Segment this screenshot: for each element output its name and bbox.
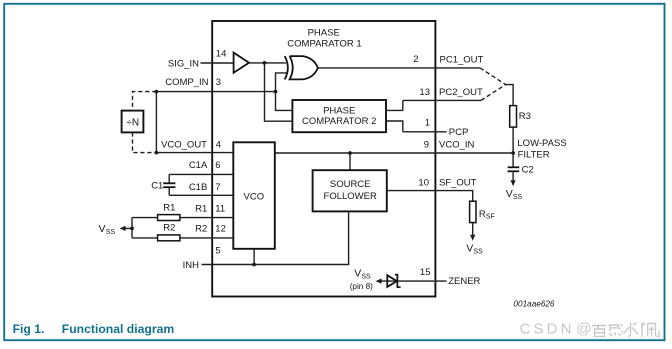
pin 14 SIG_IN label [168, 49, 227, 70]
wire COMP_IN [156, 91, 275, 93]
phase comparator 2 box U2 [292, 100, 386, 132]
IC main outline U1 [212, 21, 435, 297]
junction VCO_OUT feedback [155, 151, 159, 155]
svg-text:VCO_IN: VCO_IN [439, 140, 475, 151]
dashed wire feedback divider [133, 92, 157, 153]
svg-text:COMPARATOR 2: COMPARATOR 2 [302, 116, 376, 127]
resistor RSF [470, 201, 495, 222]
pin 13 PC2_OUT label [419, 87, 483, 98]
capacitor C2 [508, 153, 534, 175]
svg-text:CSDN: CSDN [520, 320, 575, 337]
wire XOR output to pin 2 PC1_OUT [318, 67, 480, 69]
svg-text:SS: SS [361, 273, 371, 280]
pin 11 R1 label [195, 203, 225, 214]
svg-text:(pin 8): (pin 8) [350, 282, 373, 291]
pin 1 PCP label [425, 118, 469, 138]
svg-text:12: 12 [215, 224, 226, 235]
wire R3 to VCO_IN node [512, 127, 514, 153]
ground VSS below RSF [466, 223, 483, 256]
wire R2 [132, 237, 233, 239]
VCO box U3 [233, 142, 274, 249]
wire comparator 2 lower output to pin 1 PCP [386, 121, 447, 132]
svg-text:SF: SF [486, 214, 495, 221]
dashed wire PC2_OUT to low-pass filter [481, 85, 506, 101]
resistor R3 [510, 106, 531, 128]
svg-text:Fig 1.: Fig 1. [13, 322, 45, 336]
wire INH [202, 211, 349, 264]
svg-text:LOW-PASS: LOW-PASS [517, 138, 566, 149]
wire VCO_OUT feedback to COMP_IN [155, 92, 157, 153]
svg-text:R2: R2 [163, 223, 175, 234]
buffer amplifier A1 [234, 53, 249, 73]
svg-text:COMPARATOR 1: COMPARATOR 1 [287, 38, 361, 49]
svg-text:9: 9 [424, 140, 429, 151]
divider box N [122, 111, 144, 133]
svg-text:PHASE: PHASE [323, 105, 355, 116]
wire SF_OUT [387, 191, 473, 202]
svg-text:C1A: C1A [189, 160, 208, 171]
svg-text:INH: INH [183, 260, 200, 271]
svg-text:SS: SS [106, 229, 116, 236]
svg-text:PC2_OUT: PC2_OUT [439, 87, 483, 98]
svg-text:C2: C2 [522, 164, 534, 175]
svg-text:SS: SS [473, 248, 483, 255]
svg-text:SS: SS [513, 194, 523, 201]
junction buffer output [263, 61, 267, 65]
svg-text:PC1_OUT: PC1_OUT [440, 54, 484, 65]
ground VSS left arrow [99, 223, 133, 236]
source follower box U4 [313, 170, 387, 211]
resistor R2 [158, 223, 180, 241]
svg-text:SIG_IN: SIG_IN [168, 58, 199, 69]
wire VCO_OUT [156, 152, 233, 154]
junction INH at VCO [252, 263, 256, 267]
resistor R1 [158, 202, 180, 220]
wire C1B [169, 194, 233, 196]
wire C1A [169, 173, 233, 175]
wire ZENER [381, 280, 447, 282]
caption Fig 1 [13, 322, 175, 336]
svg-text:SOURCE: SOURCE [330, 179, 371, 190]
wire COMP_IN to XOR lower input and comparator 2 upper input [276, 73, 293, 111]
svg-text:SF_OUT: SF_OUT [439, 177, 477, 188]
ground VSS below C2 [506, 172, 523, 201]
svg-text:3: 3 [216, 77, 221, 88]
pin 7 C1B label [189, 182, 221, 193]
dashed wire PC1_OUT to low-pass filter [480, 68, 506, 85]
label 001aae626 [514, 300, 555, 309]
svg-text:VCO: VCO [244, 192, 265, 203]
wire R1 R2 common [131, 218, 133, 238]
svg-text:FILTER: FILTER [518, 150, 550, 161]
pin 9 VCO_IN label [424, 140, 475, 151]
svg-text:2: 2 [413, 54, 418, 65]
svg-text:PHASE: PHASE [308, 28, 340, 39]
svg-text:COMP_IN: COMP_IN [165, 77, 208, 88]
wire R1 [132, 217, 233, 219]
svg-text:R1: R1 [195, 203, 207, 214]
pin 5 INH label [183, 245, 221, 271]
junction VSS arrow node [130, 227, 134, 231]
pin 12 R2 label [195, 224, 226, 235]
wire SIG_IN [201, 62, 234, 64]
svg-text:001aae626: 001aae626 [514, 300, 555, 309]
svg-text:11: 11 [215, 203, 225, 214]
label LOW-PASS FILTER [517, 138, 566, 161]
wire VCO output to VCO_IN net [275, 152, 513, 154]
pin 4 VCO_OUT label [161, 140, 221, 151]
svg-text:6: 6 [215, 160, 220, 171]
zener diode D1 [387, 275, 400, 288]
svg-text:R2: R2 [195, 224, 207, 235]
svg-text:V: V [354, 267, 361, 279]
svg-text:÷N: ÷N [126, 117, 139, 128]
wire buffer output down to comparator 2 lower input [265, 63, 293, 121]
svg-text:VCO_OUT: VCO_OUT [161, 140, 207, 151]
svg-text:R1: R1 [163, 202, 175, 213]
wire buffer output to XOR [249, 62, 286, 64]
svg-text:@: @ [576, 320, 591, 337]
junction VCO_IN at filter [511, 151, 515, 155]
wire VCO_IN down to source follower input [349, 153, 351, 170]
svg-text:C1: C1 [151, 180, 163, 191]
pin 10 SF_OUT label [418, 177, 476, 188]
svg-text:15: 15 [420, 267, 431, 278]
capacitor C1 [151, 174, 175, 195]
svg-text:ZENER: ZENER [448, 276, 480, 287]
junction COMP_IN to comparator inputs [274, 90, 278, 94]
svg-text:5: 5 [215, 245, 220, 256]
pin 2 PC1_OUT label [413, 54, 483, 65]
svg-text:10: 10 [418, 177, 429, 188]
svg-text:4: 4 [216, 140, 221, 151]
watermark CSDN [520, 320, 660, 338]
svg-text:7: 7 [215, 182, 220, 193]
svg-text:V: V [99, 223, 106, 235]
wire comparator 2 upper output to pin 13 PC2_OUT [386, 100, 481, 110]
wire filter node to R3 [506, 85, 513, 106]
ground VSS pin 8 arrow [350, 267, 382, 291]
svg-text:C1B: C1B [189, 182, 207, 193]
junction COMP_IN feedback node [155, 90, 159, 94]
svg-text:FOLLOWER: FOLLOWER [324, 191, 377, 202]
wire VCO bottom to INH [253, 249, 255, 265]
svg-text:V: V [466, 242, 473, 254]
svg-text:R3: R3 [519, 111, 531, 122]
svg-text:Functional diagram: Functional diagram [62, 322, 175, 336]
pin 15 ZENER label [420, 267, 481, 287]
pin 3 COMP_IN label [165, 77, 221, 88]
svg-text:V: V [506, 188, 513, 200]
label PHASE COMPARATOR 1 [287, 28, 361, 50]
junction VCO_IN at source follower [348, 151, 352, 155]
svg-text:PCP: PCP [449, 127, 469, 138]
svg-text:13: 13 [419, 87, 430, 98]
svg-text:14: 14 [216, 49, 227, 60]
pin 6 C1A label [189, 160, 221, 171]
svg-text:1: 1 [425, 118, 430, 129]
XOR gate phase comparator 1 [285, 56, 318, 79]
